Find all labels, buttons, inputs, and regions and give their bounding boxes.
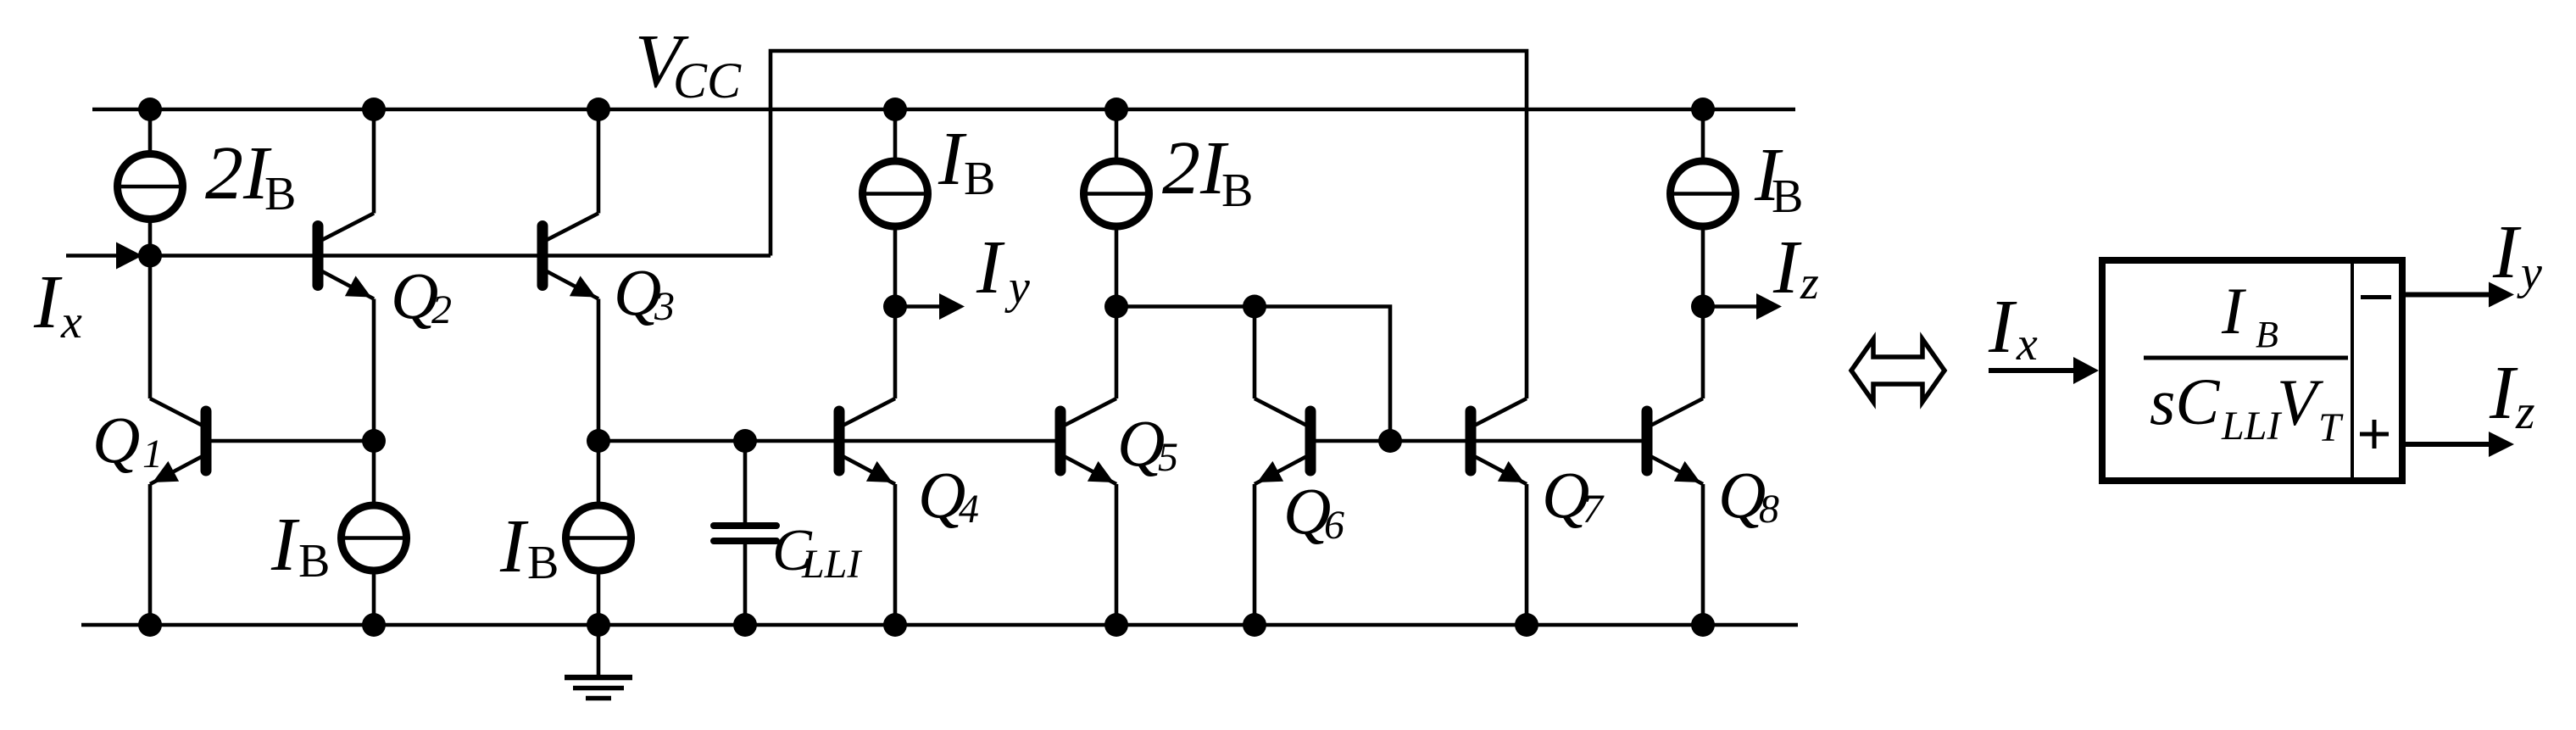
svg-text:Q: Q [92,403,140,476]
svg-text:I: I [1988,285,2017,369]
svg-text:B: B [1221,164,1253,217]
svg-text:z: z [2515,384,2535,439]
svg-text:2: 2 [431,287,452,332]
svg-text:1: 1 [142,432,163,476]
svg-text:I: I [33,260,63,344]
svg-text:CC: CC [673,53,742,109]
svg-text:I: I [2221,274,2247,348]
svg-text:V: V [2277,365,2324,439]
svg-text:I: I [1772,226,1802,309]
svg-text:B: B [527,537,559,589]
svg-text:4: 4 [959,487,979,532]
svg-text:I: I [499,504,529,588]
svg-text:I: I [270,503,300,587]
svg-text:y: y [2517,247,2542,299]
svg-text:I: I [2492,210,2522,294]
svg-text:x: x [2016,318,2038,371]
svg-text:3: 3 [654,284,675,329]
svg-text:7: 7 [1583,487,1605,532]
svg-text:B: B [298,535,330,588]
svg-text:T: T [2318,405,2344,450]
svg-text:8: 8 [1759,487,1779,532]
svg-text:z: z [1800,257,1819,309]
svg-text:sC: sC [2150,365,2220,438]
svg-text:y: y [1004,261,1030,314]
svg-text:6: 6 [1324,503,1344,548]
svg-text:LLI: LLI [2221,404,2282,449]
svg-text:2I: 2I [205,131,272,215]
svg-text:I: I [2489,351,2518,435]
svg-text:I: I [937,117,967,201]
svg-text:5: 5 [1158,435,1178,480]
svg-text:LLI: LLI [801,542,862,587]
svg-text:I: I [976,226,1005,309]
svg-text:B: B [264,168,296,220]
svg-text:B: B [1772,170,1803,223]
svg-text:x: x [60,296,82,348]
svg-text:B: B [2256,314,2278,355]
svg-text:2I: 2I [1162,126,1229,210]
svg-text:B: B [964,153,995,205]
